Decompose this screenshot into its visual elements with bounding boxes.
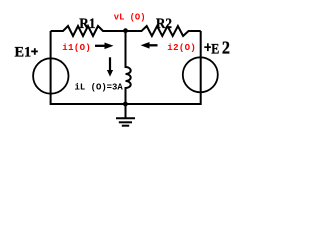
svg-text:R2: R2 <box>156 15 172 32</box>
svg-text:2: 2 <box>222 38 230 58</box>
svg-text:E1: E1 <box>15 45 32 61</box>
svg-text:iL (O)=3A: iL (O)=3A <box>75 83 124 93</box>
svg-text:i2(O): i2(O) <box>167 43 196 53</box>
svg-text:vL (O): vL (O) <box>114 12 146 22</box>
svg-text:R1: R1 <box>79 15 95 32</box>
svg-text:i1(O): i1(O) <box>62 43 91 53</box>
svg-text:E: E <box>211 40 219 57</box>
